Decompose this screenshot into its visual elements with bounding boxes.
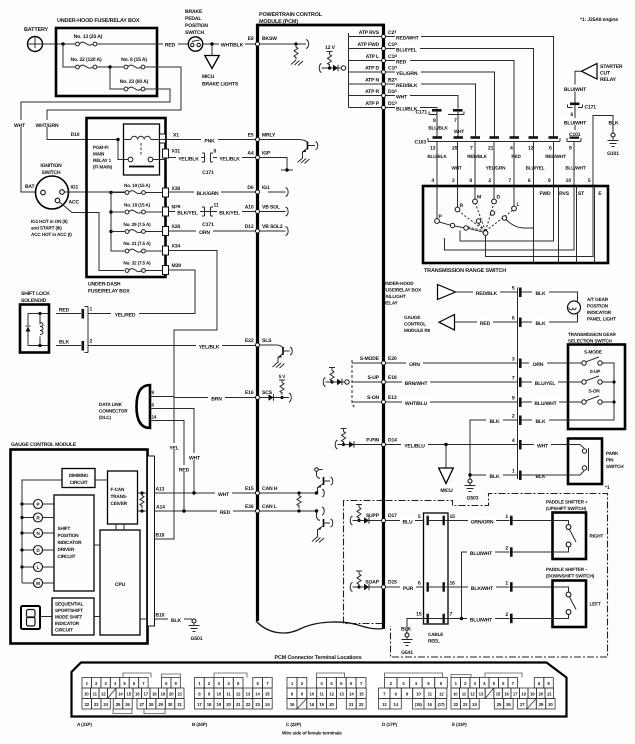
svg-text:9: 9 bbox=[548, 178, 551, 184]
wire BLU/WHT C171 to C101 bbox=[574, 105, 576, 136]
svg-text:ATP R: ATP R bbox=[365, 89, 379, 95]
connector E (31P) grid bbox=[451, 678, 555, 710]
svg-text:No. 18 (15 A): No. 18 (15 A) bbox=[124, 203, 151, 208]
svg-text:E13: E13 bbox=[388, 395, 397, 401]
svg-text:B10: B10 bbox=[156, 613, 165, 619]
wire BLU/YEL C19 to C163 bbox=[386, 49, 534, 138]
svg-text:6: 6 bbox=[549, 146, 552, 152]
svg-text:No. 23 (80 A): No. 23 (80 A) bbox=[120, 79, 149, 85]
svg-text:17: 17 bbox=[197, 702, 202, 707]
svg-text:14: 14 bbox=[118, 692, 123, 697]
svg-text:21: 21 bbox=[178, 692, 183, 697]
svg-text:11: 11 bbox=[226, 692, 231, 697]
seven-segment indicator bbox=[21, 606, 40, 629]
wire BRN/WHT-BLU/YEL E19 to S-UP bbox=[386, 381, 582, 383]
svg-text:STARTER: STARTER bbox=[600, 64, 623, 70]
svg-text:10: 10 bbox=[217, 692, 222, 697]
connector C101 cap bbox=[567, 138, 581, 142]
svg-text:and START (III): and START (III) bbox=[31, 226, 62, 231]
svg-text:1: 1 bbox=[505, 514, 508, 520]
svg-text:14: 14 bbox=[349, 692, 354, 697]
svg-text:16: 16 bbox=[504, 692, 509, 697]
svg-text:30: 30 bbox=[548, 702, 553, 707]
svg-text:2: 2 bbox=[488, 178, 491, 184]
label WHT bbox=[12, 120, 27, 129]
svg-text:No. 29 (7.5 A): No. 29 (7.5 A) bbox=[123, 222, 151, 227]
svg-text:WHT: WHT bbox=[396, 95, 408, 101]
svg-text:YEL/GRN: YEL/GRN bbox=[486, 166, 506, 171]
wire color labels below C163 bbox=[425, 152, 449, 160]
svg-text:15: 15 bbox=[450, 514, 456, 520]
svg-text:21: 21 bbox=[236, 702, 241, 707]
wire BLK cable reel 15 to G541 bbox=[407, 619, 427, 634]
svg-text:UNDER-HOOD FUSE/RELAY BOX: UNDER-HOOD FUSE/RELAY BOX bbox=[57, 18, 140, 24]
svg-text:YEL: YEL bbox=[169, 446, 178, 452]
svg-text:M: M bbox=[36, 581, 40, 586]
bracket 12V line bbox=[319, 64, 321, 73]
svg-text:2: 2 bbox=[505, 546, 508, 552]
svg-text:MODULE R9: MODULE R9 bbox=[404, 328, 431, 333]
svg-text:L: L bbox=[37, 565, 40, 570]
svg-text:SOLENOID: SOLENOID bbox=[21, 298, 47, 304]
letter M bbox=[22, 582, 54, 584]
wire junction down to fuse22 bbox=[63, 44, 76, 67]
svg-text:POSITION: POSITION bbox=[58, 533, 80, 538]
svg-text:GAUGE: GAUGE bbox=[404, 315, 420, 320]
svg-text:12: 12 bbox=[439, 692, 444, 697]
svg-text:X31: X31 bbox=[172, 149, 181, 155]
gauge connector strip bbox=[148, 456, 155, 626]
A13 row CAN H bbox=[138, 492, 256, 494]
connector C171 (starter) bbox=[568, 105, 583, 108]
svg-text:19: 19 bbox=[319, 702, 324, 707]
wire RED C18 to C163 bbox=[386, 61, 515, 138]
node MICU branch bbox=[444, 443, 447, 446]
svg-text:VB SOL2: VB SOL2 bbox=[262, 224, 283, 230]
wire BLU/BLK D13 to C171 bbox=[386, 108, 438, 109]
sequential sportshift box bbox=[52, 598, 94, 635]
wire fuse22 to fuse8 bbox=[97, 66, 124, 68]
svg-text:DATA LINK: DATA LINK bbox=[99, 402, 123, 407]
letter P bbox=[22, 503, 54, 505]
svg-text:FUSE/RELAY BOX: FUSE/RELAY BOX bbox=[383, 288, 422, 293]
resistor F-CAN termination bbox=[140, 493, 144, 508]
svg-text:9: 9 bbox=[569, 146, 572, 152]
coil solenoid bbox=[39, 314, 41, 346]
svg-text:10: 10 bbox=[416, 692, 421, 697]
transmission range switch box bbox=[423, 186, 608, 263]
svg-text:BRN: BRN bbox=[211, 397, 222, 403]
svg-text:ATP D: ATP D bbox=[365, 66, 379, 72]
TRS ST path bbox=[445, 186, 575, 250]
svg-text:BLU/BLK: BLU/BLK bbox=[396, 107, 418, 113]
svg-text:BLU/WHT: BLU/WHT bbox=[470, 551, 493, 557]
diode 12V bbox=[333, 65, 338, 71]
svg-text:A14: A14 bbox=[156, 505, 165, 511]
svg-text:UNDER-DASH: UNDER-DASH bbox=[88, 282, 121, 288]
wire relay coil branch to contact bbox=[118, 140, 128, 160]
PCM terminal E19 S-UP bbox=[368, 375, 397, 384]
svg-text:MICU: MICU bbox=[202, 74, 215, 80]
bus under-dash bbox=[111, 193, 125, 252]
svg-text:31: 31 bbox=[177, 702, 182, 707]
svg-text:15: 15 bbox=[496, 692, 501, 697]
svg-text:18: 18 bbox=[207, 702, 212, 707]
wire fuse13 to RED bbox=[97, 43, 189, 45]
wire BRN DLC to E16 bbox=[174, 397, 256, 398]
wire ORN X28 to D12 bbox=[169, 230, 256, 232]
svg-text:24: 24 bbox=[265, 702, 270, 707]
svg-text:*1: J35A8 engine: *1: J35A8 engine bbox=[580, 17, 618, 23]
label GRN/ORN bbox=[468, 517, 496, 526]
svg-text:BLK/WHT: BLK/WHT bbox=[471, 586, 494, 592]
BLK row selection switch to G503 bbox=[470, 420, 518, 479]
svg-text:SOAP: SOAP bbox=[365, 580, 379, 586]
svg-text:CUT: CUT bbox=[600, 71, 611, 77]
svg-text:F-CAN: F-CAN bbox=[111, 487, 125, 492]
tab X31 bbox=[163, 149, 169, 158]
svg-text:WHT/GRN: WHT/GRN bbox=[35, 123, 59, 129]
svg-text:SWITCH: SWITCH bbox=[606, 464, 624, 469]
node BLU/WHT junction bbox=[460, 617, 463, 620]
svg-text:RED: RED bbox=[165, 43, 176, 49]
under-dash fuse/relay box bbox=[87, 118, 166, 277]
svg-text:INDICATOR: INDICATOR bbox=[587, 310, 612, 315]
svg-text:MAIN: MAIN bbox=[93, 152, 105, 157]
svg-text:C171: C171 bbox=[585, 105, 597, 111]
letter D bbox=[22, 549, 54, 551]
A14 row CAN L bbox=[138, 510, 256, 512]
svg-text:ACC: ACC bbox=[69, 200, 80, 206]
svg-text:18: 18 bbox=[152, 692, 157, 697]
wire YEL/BLU D14 to park pin switch pin4 bbox=[386, 444, 569, 446]
svg-text:10: 10 bbox=[566, 178, 572, 184]
svg-text:ST: ST bbox=[578, 191, 585, 197]
svg-text:10: 10 bbox=[453, 692, 458, 697]
svg-text:17: 17 bbox=[513, 692, 518, 697]
svg-text:SHIFT: SHIFT bbox=[58, 526, 71, 531]
svg-text:12: 12 bbox=[236, 692, 241, 697]
MICU brake lights triangle bbox=[211, 44, 213, 56]
svg-text:6: 6 bbox=[570, 112, 573, 118]
svg-text:BAT: BAT bbox=[25, 184, 36, 190]
svg-text:BLU/YEL: BLU/YEL bbox=[526, 166, 545, 171]
node relay D10 junction bbox=[116, 138, 119, 141]
F-CAN transceiver bbox=[108, 471, 138, 524]
svg-text:UNDER-HOOD: UNDER-HOOD bbox=[383, 281, 414, 286]
svg-text:28: 28 bbox=[149, 702, 154, 707]
svg-text:FUSE/RELAY BOX: FUSE/RELAY BOX bbox=[88, 289, 130, 295]
svg-text:G541: G541 bbox=[401, 650, 413, 656]
svg-text:A/T GEAR: A/T GEAR bbox=[587, 297, 609, 302]
node ATP common circle bbox=[341, 66, 345, 70]
svg-text:*1: *1 bbox=[605, 485, 610, 491]
svg-text:IGP: IGP bbox=[262, 151, 271, 157]
svg-text:RED: RED bbox=[59, 308, 70, 314]
svg-text:BLK: BLK bbox=[401, 627, 411, 633]
svg-text:PUR: PUR bbox=[403, 586, 414, 592]
svg-text:C171: C171 bbox=[202, 222, 214, 228]
connector C171 N29 bbox=[202, 207, 213, 216]
svg-text:7: 7 bbox=[508, 178, 511, 184]
connector bars shift lock bbox=[82, 309, 85, 319]
dimming circuit bbox=[62, 469, 95, 488]
svg-text:E8: E8 bbox=[248, 36, 254, 42]
svg-text:S-MODE: S-MODE bbox=[360, 356, 380, 362]
ground G503 bbox=[468, 479, 472, 483]
svg-text:4: 4 bbox=[510, 146, 513, 152]
svg-text:C163: C163 bbox=[415, 140, 427, 146]
svg-text:CEIVER: CEIVER bbox=[111, 501, 128, 506]
svg-text:PANEL LIGHT: PANEL LIGHT bbox=[587, 317, 616, 322]
svg-text:WHT/BLK: WHT/BLK bbox=[221, 43, 244, 49]
park pin switch bbox=[568, 439, 602, 485]
svg-text:No. 21 (7.5 A): No. 21 (7.5 A) bbox=[123, 241, 151, 246]
svg-text:11: 11 bbox=[214, 203, 219, 209]
svg-text:20: 20 bbox=[169, 692, 174, 697]
svg-text:YEL/BLU: YEL/BLU bbox=[404, 444, 425, 450]
dash-dot option box right side bbox=[386, 494, 608, 658]
svg-text:C171: C171 bbox=[202, 170, 214, 176]
PCM terminal E15 CAN H bbox=[245, 486, 278, 495]
svg-text:PGM-FI: PGM-FI bbox=[93, 145, 108, 150]
svg-text:G503: G503 bbox=[467, 496, 479, 502]
TRS RVS path bbox=[460, 186, 554, 241]
svg-text:WHT: WHT bbox=[451, 166, 461, 171]
svg-text:YEL/BLK: YEL/BLK bbox=[219, 157, 240, 163]
svg-text:9: 9 bbox=[512, 396, 515, 402]
svg-text:24: 24 bbox=[103, 702, 108, 707]
svg-text:E (31P): E (31P) bbox=[452, 722, 467, 727]
wire BKSW internal bbox=[260, 43, 307, 45]
svg-text:7: 7 bbox=[450, 612, 453, 618]
PCM terminal D14 P-PIN bbox=[366, 438, 397, 447]
label WHT/BLK bbox=[219, 40, 245, 49]
svg-text:RIGHT: RIGHT bbox=[590, 534, 604, 539]
svg-text:A4: A4 bbox=[247, 151, 253, 157]
svg-text:ATP FWD: ATP FWD bbox=[358, 42, 380, 48]
PCM terminal D17 SUPP bbox=[366, 513, 397, 523]
svg-text:17: 17 bbox=[144, 692, 149, 697]
svg-text:27: 27 bbox=[139, 702, 144, 707]
svg-text:YEL/RED: YEL/RED bbox=[115, 313, 136, 319]
svg-text:D12: D12 bbox=[245, 224, 254, 230]
svg-text:S-ON: S-ON bbox=[588, 389, 600, 394]
svg-text:BLU/BLK: BLU/BLK bbox=[428, 126, 448, 131]
node battery junction bbox=[61, 42, 64, 45]
svg-text:PNK: PNK bbox=[204, 139, 215, 145]
wire RED/WHT C21 to C163 bbox=[386, 37, 554, 138]
TRS contact L bbox=[513, 186, 515, 206]
selection switch connector column bbox=[517, 288, 519, 480]
svg-text:IG1: IG1 bbox=[71, 185, 79, 191]
wire BLU/WHT paddle+ pin2 bbox=[462, 552, 510, 619]
svg-text:ATP L: ATP L bbox=[366, 54, 379, 60]
svg-text:3: 3 bbox=[512, 357, 515, 363]
PCM terminal D12 VB SOL2 bbox=[245, 224, 283, 233]
label WHT/GRN bbox=[34, 120, 61, 129]
tab M39 bbox=[163, 266, 169, 275]
ATP R row D16 bbox=[349, 89, 398, 98]
svg-text:16: 16 bbox=[135, 692, 140, 697]
svg-text:BLK: BLK bbox=[171, 618, 181, 624]
svg-text:PCM Connector Terminal Locatio: PCM Connector Terminal Locations bbox=[275, 655, 362, 661]
svg-text:RED: RED bbox=[220, 510, 231, 516]
svg-text:L: L bbox=[517, 202, 520, 208]
wire BLK pin6 to bulb bottom bbox=[522, 314, 578, 323]
ground G501 bbox=[192, 619, 196, 623]
svg-text:POWERTRAIN CONTROL: POWERTRAIN CONTROL bbox=[259, 12, 323, 18]
wire fuse8 junction down to fuse23 bbox=[110, 67, 124, 89]
PCM terminal D6 IG1 bbox=[247, 185, 270, 194]
ground hatch BKSW bbox=[291, 60, 303, 66]
tab X38 bbox=[145, 192, 162, 194]
wire WHT fuse23 to ignition BAT bbox=[21, 89, 170, 192]
PCM terminal E36 CAN L bbox=[245, 504, 277, 513]
TRS contact R bbox=[457, 186, 459, 207]
svg-text:22: 22 bbox=[453, 702, 458, 707]
svg-text:LEFT: LEFT bbox=[590, 602, 601, 607]
svg-text:5: 5 bbox=[588, 178, 591, 184]
svg-text:14: 14 bbox=[393, 702, 398, 707]
svg-text:BLU/YEL: BLU/YEL bbox=[535, 381, 556, 387]
wire BLK pin5 to bulb bbox=[522, 292, 578, 302]
TRS contact P bbox=[436, 186, 438, 219]
wire BLK/YEL N29 to A10 bbox=[169, 211, 256, 213]
wire M39 to YEL/RED row bbox=[89, 270, 196, 314]
connector D (17P) grid bbox=[379, 678, 448, 710]
wire C171-8 down to C163 bbox=[436, 112, 438, 137]
svg-text:7: 7 bbox=[512, 376, 515, 382]
svg-text:E20: E20 bbox=[388, 356, 397, 362]
letter L bbox=[22, 566, 54, 568]
TRS P chain wire bbox=[439, 222, 483, 232]
svg-text:16: 16 bbox=[427, 702, 432, 707]
svg-text:25: 25 bbox=[116, 702, 121, 707]
svg-text:ORN: ORN bbox=[199, 230, 210, 236]
wire BLU D17 to cable reel 5 bbox=[386, 520, 425, 522]
wire IG1 to under-dash bus bbox=[64, 191, 124, 193]
wire RED R9 to pin6 bbox=[455, 321, 519, 323]
svg-text:BRN/WHT: BRN/WHT bbox=[405, 381, 429, 387]
resistor BKSW pulldown bbox=[294, 44, 298, 59]
svg-text:18: 18 bbox=[310, 702, 315, 707]
svg-text:RED/BLK: RED/BLK bbox=[467, 154, 487, 159]
svg-text:WHT: WHT bbox=[189, 456, 201, 462]
paddle+ internals bbox=[553, 521, 569, 525]
svg-text:CAN L: CAN L bbox=[262, 504, 277, 510]
svg-text:5 V: 5 V bbox=[279, 374, 287, 379]
svg-text:BLU/WHT: BLU/WHT bbox=[564, 87, 587, 93]
svg-text:POSITION: POSITION bbox=[185, 23, 208, 29]
svg-text:BLK/YEL: BLK/YEL bbox=[177, 211, 198, 217]
svg-text:19: 19 bbox=[161, 692, 166, 697]
svg-text:22: 22 bbox=[84, 702, 89, 707]
svg-text:15: 15 bbox=[127, 692, 132, 697]
ATP P row D13 bbox=[349, 101, 398, 110]
svg-text:A10: A10 bbox=[245, 205, 254, 211]
PCM terminal D15 SOAP bbox=[365, 580, 397, 590]
svg-text:(15): (15) bbox=[415, 702, 423, 707]
link dimming to F-CAN bbox=[95, 479, 108, 481]
paddle shifter + box bbox=[553, 513, 587, 560]
pull-up P-PIN bbox=[341, 429, 347, 432]
tab N29 bbox=[163, 207, 169, 216]
svg-text:21: 21 bbox=[349, 702, 354, 707]
TRS contact D bbox=[493, 186, 495, 199]
selection switch common wire bbox=[522, 363, 614, 420]
relay contacts bbox=[128, 157, 133, 162]
svg-text:DRIVER: DRIVER bbox=[58, 547, 75, 552]
svg-text:TRANSMISSION GEAR: TRANSMISSION GEAR bbox=[568, 332, 617, 337]
TRS pivot bbox=[483, 231, 488, 236]
svg-text:14: 14 bbox=[255, 692, 260, 697]
svg-text:RELAY: RELAY bbox=[383, 301, 399, 306]
svg-text:D14: D14 bbox=[388, 438, 397, 444]
svg-text:26: 26 bbox=[125, 702, 130, 707]
wire WHT D16 to C171 bbox=[386, 96, 459, 109]
tab X28 bbox=[163, 227, 169, 236]
svg-text:CPU: CPU bbox=[115, 582, 126, 588]
svg-text:VB SOL: VB SOL bbox=[262, 205, 280, 211]
starter cut relay bbox=[582, 64, 598, 80]
svg-text:BLK: BLK bbox=[609, 121, 619, 127]
svg-text:INDICATOR: INDICATOR bbox=[55, 621, 80, 626]
svg-text:RELAY 1: RELAY 1 bbox=[93, 158, 112, 163]
svg-text:CONNECTOR: CONNECTOR bbox=[99, 409, 128, 414]
svg-text:E19: E19 bbox=[388, 375, 397, 381]
svg-text:A (31P): A (31P) bbox=[77, 722, 92, 727]
svg-text:BRAKE: BRAKE bbox=[185, 9, 203, 15]
svg-text:13: 13 bbox=[479, 692, 484, 697]
CPU box bbox=[100, 530, 140, 635]
svg-text:SHIFT LOCK: SHIFT LOCK bbox=[21, 291, 50, 297]
svg-text:TRANS-: TRANS- bbox=[111, 494, 128, 499]
svg-text:BLU/YEL: BLU/YEL bbox=[396, 48, 417, 54]
svg-text:15: 15 bbox=[416, 612, 422, 618]
svg-text:C (22P): C (22P) bbox=[286, 722, 302, 727]
battery bbox=[24, 27, 49, 52]
svg-text:BLU: BLU bbox=[403, 520, 413, 526]
svg-text:SPORTSHIFT: SPORTSHIFT bbox=[55, 608, 83, 613]
svg-text:19: 19 bbox=[217, 702, 222, 707]
cable reel box bbox=[424, 513, 449, 624]
svg-text:C171: C171 bbox=[416, 110, 428, 116]
svg-text:SEQUENTIAL: SEQUENTIAL bbox=[55, 602, 84, 607]
wire YEL/GRN C10 to C163 bbox=[386, 72, 495, 137]
svg-text:13: 13 bbox=[339, 692, 344, 697]
svg-text:M39: M39 bbox=[172, 263, 182, 269]
svg-text:No. 32 (7.5 A): No. 32 (7.5 A) bbox=[123, 261, 151, 266]
svg-text:DIMMING: DIMMING bbox=[69, 473, 89, 478]
paddle- internals bbox=[553, 587, 569, 592]
svg-text:P: P bbox=[37, 502, 40, 507]
svg-text:10: 10 bbox=[84, 692, 89, 697]
svg-text:24: 24 bbox=[472, 702, 477, 707]
wire battery to fuse box bbox=[43, 43, 76, 45]
svg-text:2: 2 bbox=[505, 612, 508, 618]
svg-text:2: 2 bbox=[512, 414, 515, 420]
svg-text:14: 14 bbox=[152, 415, 157, 420]
wire PNK X1 to PCM E5 bbox=[160, 139, 256, 141]
svg-text:REEL: REEL bbox=[428, 639, 440, 644]
wire 12V row bbox=[322, 67, 341, 69]
svg-text:SELECTION SWITCH: SELECTION SWITCH bbox=[568, 339, 613, 344]
PGM-FI main relay 1 box bbox=[124, 124, 160, 175]
PCM terminal E20 S-MODE bbox=[360, 356, 397, 365]
svg-text:10: 10 bbox=[310, 692, 315, 697]
svg-text:D (17P): D (17P) bbox=[382, 722, 398, 727]
